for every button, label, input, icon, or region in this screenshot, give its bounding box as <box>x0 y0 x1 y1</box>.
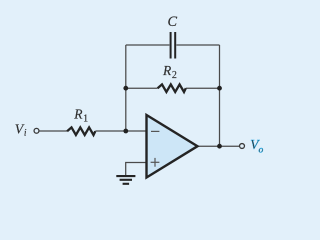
svg-text:C: C <box>168 14 178 30</box>
